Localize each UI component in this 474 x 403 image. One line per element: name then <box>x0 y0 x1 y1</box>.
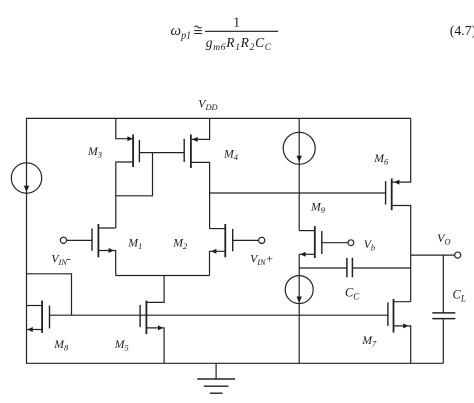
wire M9 source down / I3 branch <box>298 254 300 363</box>
equation fraction bar <box>205 30 278 32</box>
svg-text:VDD: VDD <box>198 98 217 113</box>
svg-text:ωp1: ωp1 <box>171 23 192 42</box>
svg-text:M2: M2 <box>172 236 187 251</box>
transistor M7 <box>393 299 395 333</box>
current source I1 <box>11 163 41 193</box>
transistor M9 <box>314 226 316 258</box>
wire CC right <box>352 267 410 269</box>
wire left bias rail <box>26 118 28 363</box>
svg-text:Vb: Vb <box>364 238 375 253</box>
node Vb terminal <box>348 240 354 246</box>
wire M8 diode connection <box>27 274 72 315</box>
capacitor CC <box>346 258 348 278</box>
svg-text:M7: M7 <box>361 334 377 349</box>
svg-text:1: 1 <box>233 15 240 30</box>
node VIN+ terminal <box>259 237 265 243</box>
wire M9 source <box>299 253 315 255</box>
wire M2 source <box>210 251 226 275</box>
svg-text:M3: M3 <box>87 145 102 160</box>
wire M5 drain drop <box>146 276 164 303</box>
wire M2 drain <box>210 228 226 230</box>
wire current source I2 drop <box>298 118 300 230</box>
svg-text:M1: M1 <box>127 236 142 251</box>
transistor M1 <box>97 224 99 257</box>
wire VDD rail <box>26 117 411 119</box>
svg-text:VIN-: VIN- <box>51 253 71 268</box>
wire M8 source <box>27 329 43 331</box>
wire M5 source <box>146 328 164 363</box>
ground <box>215 363 217 379</box>
svg-text:M8: M8 <box>53 338 69 353</box>
svg-text:CL: CL <box>453 288 466 304</box>
wire output node <box>411 254 455 256</box>
wire M4 source drop <box>192 118 210 139</box>
wire VSS bottom rail <box>26 362 443 364</box>
wire M6 gate line <box>210 192 386 194</box>
wire M9 gate <box>322 242 348 244</box>
wire M1 source <box>98 251 115 276</box>
svg-text:M6: M6 <box>373 152 389 167</box>
svg-text:gm6R1R2CC: gm6R1R2CC <box>206 35 272 53</box>
wire M6 source <box>392 118 411 182</box>
svg-text:CC: CC <box>345 286 360 302</box>
wire CL top <box>442 255 444 313</box>
wire mirror diode drop <box>116 153 153 196</box>
svg-text:VIN+: VIN+ <box>250 253 273 268</box>
wire M1 drain <box>98 227 115 229</box>
transistor M5 <box>145 301 147 335</box>
svg-text:VO: VO <box>437 232 450 247</box>
transistor M3 <box>132 135 134 168</box>
svg-text:(4.7): (4.7) <box>450 23 474 39</box>
wire CL bottom <box>442 319 444 364</box>
wire M3 source drop <box>116 118 133 138</box>
wire M6 drain to output <box>392 206 411 302</box>
transistor M8 <box>41 301 43 333</box>
current source I3 <box>285 276 313 304</box>
wire M7 source <box>394 326 411 363</box>
equation congruent sign <box>195 26 202 28</box>
current source I2 <box>283 132 315 164</box>
node VIN- terminal <box>60 237 66 243</box>
wire CC left <box>299 267 347 269</box>
node VO terminal <box>455 252 461 258</box>
svg-text:M5: M5 <box>114 338 129 353</box>
wire M4 drain <box>191 162 210 228</box>
wire M9 drain <box>299 230 315 232</box>
transistor M2 <box>224 224 226 257</box>
wire M3-M4 gate link <box>139 152 184 154</box>
wire M3 drain <box>116 162 133 228</box>
svg-text:M4: M4 <box>223 148 238 163</box>
transistor M4 <box>190 135 192 169</box>
wire M1 gate <box>67 239 92 241</box>
wire tail node <box>116 275 210 277</box>
capacitor CL <box>432 312 455 314</box>
transistor M6 <box>391 178 393 210</box>
svg-text:M9: M9 <box>310 201 326 216</box>
wire bias gate line <box>50 314 388 316</box>
wire M8 drain <box>27 305 43 307</box>
wire M2 gate <box>233 239 259 241</box>
wire M7 drain <box>394 301 411 303</box>
